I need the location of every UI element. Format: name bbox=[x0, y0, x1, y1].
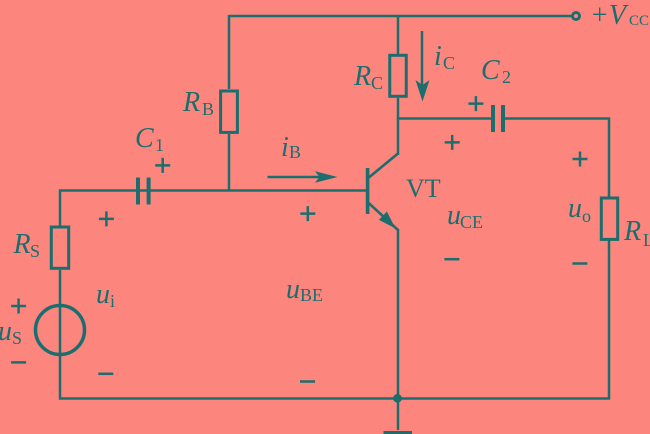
wire: bottom rail bbox=[59, 397, 610, 400]
node: +VCC terminal bbox=[573, 13, 580, 20]
polarity + of uBE bbox=[300, 206, 315, 221]
current arrow iC bbox=[416, 31, 430, 102]
svg-text:2: 2 bbox=[502, 67, 511, 87]
polarity + near C1 bbox=[155, 158, 170, 173]
wire: collector node to C2 bbox=[397, 117, 491, 120]
svg-text:R: R bbox=[353, 61, 371, 92]
polarity + of ui bbox=[99, 211, 114, 226]
wire: left rail upper bbox=[59, 190, 62, 227]
capacitor C2 bbox=[493, 105, 503, 132]
resistor RS bbox=[51, 227, 68, 268]
wire: right rail lower bbox=[608, 240, 611, 400]
svg-text:o: o bbox=[582, 206, 591, 226]
source uS bbox=[36, 306, 85, 355]
svg-text:u: u bbox=[286, 274, 300, 305]
polarity - of uS bbox=[11, 361, 26, 364]
svg-text:BE: BE bbox=[300, 285, 323, 305]
polarity + of uS bbox=[11, 299, 26, 314]
svg-text:C: C bbox=[135, 123, 154, 154]
svg-text:u: u bbox=[568, 193, 582, 224]
wire: RB top bbox=[228, 15, 231, 89]
polarity - of ui bbox=[98, 373, 113, 376]
wire: RC top bbox=[397, 15, 400, 54]
resistor RB bbox=[221, 91, 238, 132]
resistor RL bbox=[601, 198, 617, 239]
resistor RC bbox=[390, 55, 407, 96]
wire: RC bottom to collector node bbox=[397, 98, 400, 120]
svg-text:1: 1 bbox=[155, 135, 164, 155]
svg-text:+V: +V bbox=[590, 0, 629, 31]
polarity + of uo bbox=[573, 152, 588, 167]
svg-text:u: u bbox=[96, 279, 110, 310]
svg-text:L: L bbox=[643, 230, 650, 250]
svg-text:S: S bbox=[12, 328, 22, 348]
transistor VT bbox=[367, 118, 398, 230]
ground bbox=[384, 431, 413, 434]
svg-text:S: S bbox=[30, 241, 40, 261]
svg-text:R: R bbox=[182, 87, 200, 118]
svg-text:i: i bbox=[110, 291, 115, 311]
svg-text:CC: CC bbox=[629, 13, 649, 29]
svg-text:i: i bbox=[281, 132, 289, 163]
svg-text:C: C bbox=[371, 73, 383, 93]
svg-text:R: R bbox=[623, 216, 641, 247]
svg-text:u: u bbox=[447, 200, 461, 231]
svg-text:R: R bbox=[13, 229, 31, 260]
polarity - of uBE bbox=[300, 380, 315, 383]
wire: left rail lower bbox=[59, 270, 62, 400]
capacitor C1 bbox=[138, 178, 149, 205]
current arrow iB bbox=[268, 171, 338, 182]
polarity + near C2 bbox=[468, 96, 483, 111]
node: emitter-ground junction bbox=[393, 394, 402, 403]
polarity - of uCE bbox=[444, 258, 459, 261]
wire: RB bottom to base node bbox=[228, 134, 231, 192]
wire: C2 to right rail bbox=[505, 117, 610, 120]
svg-text:u: u bbox=[0, 316, 12, 347]
polarity + of uCE bbox=[445, 135, 460, 150]
wire: right rail upper bbox=[608, 118, 611, 198]
wire: base wire bbox=[59, 189, 366, 192]
svg-text:B: B bbox=[202, 99, 214, 119]
svg-text:CE: CE bbox=[460, 212, 483, 232]
polarity - of uo bbox=[572, 262, 587, 265]
wire: ground stem bbox=[397, 399, 400, 431]
wire: emitter vertical bbox=[397, 229, 400, 399]
svg-text:C: C bbox=[443, 53, 455, 73]
svg-text:VT: VT bbox=[406, 174, 441, 203]
svg-text:C: C bbox=[481, 55, 500, 86]
svg-text:i: i bbox=[434, 41, 442, 72]
wire: top VCC rail bbox=[229, 15, 572, 18]
svg-text:B: B bbox=[289, 142, 301, 162]
